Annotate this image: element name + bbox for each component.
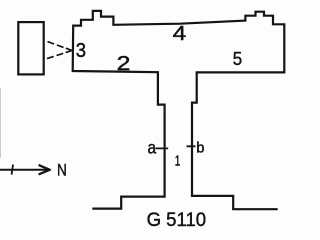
svg-text:4: 4: [173, 23, 187, 45]
svg-text:a: a: [148, 137, 157, 157]
svg-text:5: 5: [233, 48, 242, 69]
svg-text:2: 2: [117, 53, 131, 75]
svg-text:G 5110: G 5110: [147, 209, 207, 231]
svg-text:N: N: [57, 161, 67, 180]
svg-text:3: 3: [76, 40, 86, 62]
svg-text:b: b: [196, 140, 204, 157]
svg-text:1: 1: [175, 152, 181, 169]
